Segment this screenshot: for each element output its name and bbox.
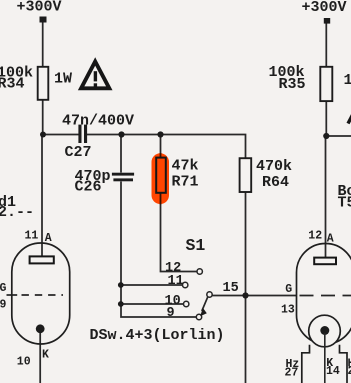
junction dot R71 branch — [157, 131, 163, 137]
switch S1 wiper circle 15 — [207, 292, 212, 297]
svg-text:G: G — [285, 283, 292, 296]
svg-text:11: 11 — [168, 274, 184, 289]
switch S1 contact circle 11 — [183, 282, 188, 287]
svg-text:+300V: +300V — [302, 0, 347, 16]
svg-text:K: K — [42, 349, 49, 362]
svg-text:R71: R71 — [172, 174, 199, 191]
junction dot switch contact 11 tap — [118, 282, 124, 288]
svg-text:G: G — [0, 282, 7, 295]
wire switch contact 10 — [121, 303, 184, 305]
svg-text:R34: R34 — [0, 76, 25, 93]
wire top horizontal rail from left rail to C27 — [42, 134, 79, 136]
svg-text:DSw.4+3(Lorlin): DSw.4+3(Lorlin) — [90, 327, 225, 344]
switch S1 lever arrowhead — [200, 308, 207, 316]
svg-text:C26: C26 — [75, 178, 102, 195]
svg-text:13: 13 — [281, 303, 295, 316]
warning triangle exclamation dot — [94, 83, 97, 86]
wire left tube cathode down to bottom edge — [39, 331, 41, 383]
node +300V left (square) — [40, 17, 47, 23]
junction dot switch contact 10 tap — [118, 301, 124, 307]
svg-text:2: 2 — [348, 365, 351, 378]
junction dot right rail — [323, 133, 329, 139]
resistor R64 — [240, 158, 252, 192]
left tube envelope T2 — [12, 243, 70, 344]
switch S1 lever — [202, 297, 208, 311]
wire through R71 capsule bottom — [160, 192, 162, 205]
wire C26 branch down from top rail — [120, 135, 122, 173]
wire C26 bottom down to switch contacts 11,10,9 — [121, 182, 197, 318]
right tube grid dashed line — [300, 295, 351, 297]
right tube cathode circle — [309, 315, 341, 347]
capacitor C27 plate 1 — [78, 125, 81, 143]
resistor R35 — [320, 67, 332, 101]
right tube base steps — [302, 345, 347, 383]
wire right junction to right edge — [326, 135, 351, 137]
node +300V right (square) — [324, 18, 330, 24]
svg-text:A: A — [45, 232, 52, 245]
capacitor C27 plate 2 — [84, 125, 87, 143]
wire left rail vertical +300V to R34 — [42, 21, 44, 67]
capacitor C26 plate 1 — [112, 173, 134, 176]
wire right junction down to right tube anode — [325, 136, 327, 258]
switch S1 contact circle 9 — [196, 314, 201, 319]
svg-text:R35: R35 — [279, 76, 306, 93]
svg-text:1W: 1W — [54, 71, 72, 88]
resistor R34 — [38, 67, 49, 100]
wire wiper 15 to junction and right tube grid — [212, 295, 297, 297]
wire C27 to R64 corner — [87, 135, 246, 159]
wire R71 branch from top rail to capsule — [160, 135, 162, 158]
wire switch contact 11 — [121, 284, 183, 286]
svg-text:10: 10 — [17, 356, 31, 369]
left tube cathode dot — [36, 324, 45, 333]
svg-text:T5.: T5. — [338, 195, 351, 212]
wire R64 bottom to junction 15 and further down to bottom edge — [245, 192, 247, 383]
wire R35 bottom to junction — [325, 102, 327, 137]
svg-text:C27: C27 — [65, 144, 92, 161]
junction dot node 15 on R64 line — [242, 292, 248, 298]
wire right rail +300V node to R35 — [325, 23, 327, 67]
svg-text:T2.--: T2.-- — [0, 204, 34, 221]
junction dot at left rail / top wire — [40, 132, 46, 138]
highlight capsule around R71 — [152, 153, 170, 204]
switch S1 contact circle 12 — [197, 269, 202, 274]
svg-text:15: 15 — [223, 281, 239, 296]
svg-text:S1: S1 — [186, 236, 206, 255]
svg-text:12: 12 — [308, 229, 322, 242]
svg-text:9: 9 — [0, 299, 7, 312]
right tube anode plate — [314, 258, 336, 265]
wire through R71 capsule top — [160, 153, 162, 158]
wire right tube cathode to bottom edge — [324, 333, 326, 383]
svg-text:1W: 1W — [344, 72, 351, 89]
left tube anode plate — [30, 256, 54, 263]
svg-text:+300V: +300V — [17, 0, 62, 15]
svg-text:470k: 470k — [256, 158, 292, 175]
wire R34 to top horizontal junction — [42, 100, 44, 135]
junction dot C26 branch — [118, 131, 124, 137]
warning triangle exclamation bar — [94, 71, 97, 81]
svg-text:14: 14 — [326, 365, 340, 378]
svg-text:47n/400V: 47n/400V — [62, 112, 134, 129]
svg-text:A: A — [327, 233, 334, 246]
right tube cathode dot — [320, 326, 329, 335]
left tube grid dashed line — [22, 294, 64, 296]
wire left rail down to left tube anode — [41, 135, 43, 258]
warning triangle partial at right edge — [348, 114, 351, 124]
capacitor C26 plate 2 — [113, 178, 133, 181]
right tube envelope top arc T5 — [297, 244, 351, 315]
svg-text:27: 27 — [285, 367, 299, 380]
svg-text:11: 11 — [25, 229, 39, 242]
svg-text:R64: R64 — [262, 174, 289, 191]
wire left tube grid stub — [7, 294, 18, 296]
switch S1 contact circle 10 — [184, 301, 189, 306]
right tube envelope bottom arc — [297, 315, 351, 344]
resistor R71 — [156, 158, 166, 193]
svg-text:47k: 47k — [172, 158, 199, 175]
svg-text:9: 9 — [167, 306, 175, 321]
warning triangle — [81, 62, 109, 89]
wire R71 bottom to switch contact 12 — [161, 193, 198, 272]
